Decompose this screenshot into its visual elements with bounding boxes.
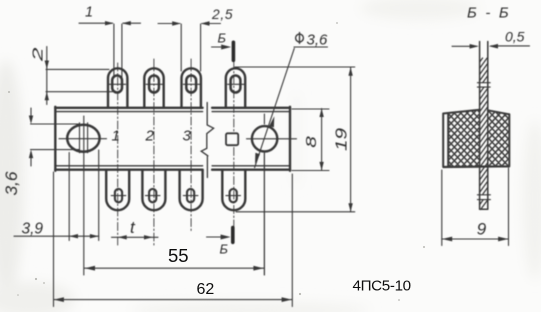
oval inner line right xyxy=(87,123,89,153)
dimensions group xyxy=(3,5,355,307)
dim 62 left arrowhead xyxy=(54,297,64,302)
dim 1 (top) dimension line xyxy=(79,22,141,24)
bottom tab 3 xyxy=(180,170,203,210)
dim t dimension line xyxy=(112,236,159,238)
insulator block bottom thick edge xyxy=(443,166,509,169)
dim 62 right arrowhead xyxy=(282,297,292,302)
dim 3,9 dimension line xyxy=(14,235,99,237)
dia 3,6 leader line xyxy=(255,48,295,167)
section mark Б bottom arrow xyxy=(207,236,222,238)
svg-text:55: 55 xyxy=(168,245,189,266)
dim t left arrowhead xyxy=(118,235,127,239)
top tab 4 hole tick xyxy=(228,83,244,85)
svg-text:1: 1 xyxy=(85,5,93,21)
circle horizontal centerline xyxy=(247,138,297,140)
dim 8 upper arrowhead xyxy=(319,109,323,118)
dim 3,6 (left) dimension line xyxy=(30,108,32,166)
top tab 3 hole tick xyxy=(183,83,199,85)
dim 2 extension lines xyxy=(46,69,113,91)
bottom tab 2 xyxy=(142,170,165,210)
svg-text:62: 62 xyxy=(197,281,215,298)
dim 3,9 extension lines xyxy=(69,150,99,241)
dim 3,6 lower arrowhead xyxy=(29,150,33,159)
strip hole ticks lower xyxy=(477,195,490,200)
dim 3,6 upper arrowhead xyxy=(29,116,33,125)
top tab 2 hole xyxy=(149,76,159,93)
dim 8 (right) dimension line xyxy=(321,109,323,171)
dim 19 extension lines xyxy=(235,67,355,212)
dim 8 lower arrowhead xyxy=(319,162,323,171)
contact strip outline xyxy=(480,42,488,210)
svg-text:8: 8 xyxy=(304,136,320,148)
dim 1 left arrowhead xyxy=(105,21,114,25)
dim 2,5 dimension line xyxy=(158,23,221,25)
dia 3,6 underline xyxy=(294,46,328,48)
svg-text:3,6: 3,6 xyxy=(3,171,21,196)
top tab 4 hole xyxy=(231,76,241,93)
dim 1 extension lines xyxy=(114,24,122,77)
bottom tab 4 hole xyxy=(230,189,237,202)
oval horizontal centerline xyxy=(59,138,107,140)
body right edge xyxy=(289,107,291,171)
svg-text:Б: Б xyxy=(220,242,229,257)
dim 19 upper arrowhead xyxy=(348,67,352,76)
top tab 4 xyxy=(226,68,245,107)
dim 0,5 dimension line xyxy=(452,45,530,47)
dim 0,5 left arrowhead xyxy=(470,44,479,49)
dim 0,5 right arrowhead xyxy=(489,44,498,49)
body left edge xyxy=(54,107,56,171)
top tab 1 hole tick xyxy=(109,83,125,85)
dim 55 right extension line xyxy=(263,153,265,275)
body outline bottom edge xyxy=(55,168,290,170)
square hole xyxy=(226,133,238,145)
top tab 3 xyxy=(182,68,201,107)
svg-text:2,5: 2,5 xyxy=(211,7,233,22)
body inner bottom line xyxy=(56,165,289,167)
dim 2 (left) dimension line xyxy=(46,47,48,105)
body inner top line xyxy=(56,111,289,113)
top tab 3 hole xyxy=(186,76,196,93)
bottom tab 4 hole tick xyxy=(226,195,241,197)
svg-text:2: 2 xyxy=(145,128,155,145)
strip hatching xyxy=(480,58,488,210)
dim 62 extension lines xyxy=(54,172,293,307)
bottom tab 1 xyxy=(106,170,129,210)
main view group xyxy=(55,59,296,275)
bottom tab 1 hole xyxy=(115,189,122,202)
dim 2,5 left arrowhead xyxy=(172,21,181,25)
section mark Б top thick bar xyxy=(232,42,236,60)
left oval hole xyxy=(67,125,99,152)
svg-text:2: 2 xyxy=(31,48,47,63)
dim 2 lower arrowhead xyxy=(45,92,49,101)
dim 9 extension lines xyxy=(442,168,509,246)
svg-text:1: 1 xyxy=(112,128,120,145)
dim 3,9 right arrowhead xyxy=(90,234,99,238)
bottom tab 3 hole xyxy=(187,189,194,202)
dim 55 right arrowhead xyxy=(253,266,263,271)
contact 2 centerline xyxy=(153,59,155,246)
body outline top edge xyxy=(55,107,290,109)
dim t right arrowhead xyxy=(144,235,153,239)
top tab 2 hole tick xyxy=(146,83,162,85)
dim 62 dimension line xyxy=(54,299,293,301)
dim 9 left arrowhead xyxy=(442,237,452,242)
top tab 2 xyxy=(144,68,163,107)
dim 55 left arrowhead xyxy=(85,266,95,271)
bottom tab 2 hole xyxy=(149,189,156,202)
contact 1 centerline xyxy=(117,63,119,246)
dim 19 lower arrowhead xyxy=(348,203,352,212)
top tab 1 xyxy=(108,68,127,107)
dim 2,5 extension lines xyxy=(181,24,200,71)
circle vertical centerline / 55 extension xyxy=(263,114,265,275)
dim 55 dimension line xyxy=(84,267,264,269)
top tab 1 hole xyxy=(112,76,122,93)
section view group xyxy=(442,5,530,246)
svg-text:9: 9 xyxy=(477,220,487,239)
svg-text:4ПС5-10: 4ПС5-10 xyxy=(353,278,411,295)
strip hole ticks upper xyxy=(477,83,490,87)
contact 3 centerline xyxy=(190,59,192,231)
bottom tab 4 xyxy=(222,170,245,210)
dim 2 upper arrowhead xyxy=(45,61,49,70)
block cross hatch xyxy=(449,110,509,167)
svg-text:Б: Б xyxy=(218,31,227,46)
paper specks xyxy=(8,22,425,301)
dia 3,6 callout symbol xyxy=(296,33,304,44)
dim 3,6 extension lines xyxy=(31,124,80,150)
oval inner line left xyxy=(79,123,81,153)
svg-text:19: 19 xyxy=(333,128,350,151)
svg-text:3: 3 xyxy=(183,128,192,145)
dim 2,5 right arrowhead xyxy=(201,21,210,25)
svg-text:0,5: 0,5 xyxy=(505,29,525,45)
dim 19 (right) dimension line xyxy=(350,67,352,212)
contact 4 centerline xyxy=(233,61,235,132)
svg-text:3,9: 3,9 xyxy=(22,221,44,238)
bottom tab 1 hole tick xyxy=(111,195,126,197)
break line xyxy=(201,103,213,178)
bottom tab 3 hole tick xyxy=(183,195,198,197)
svg-text:3,6: 3,6 xyxy=(307,31,329,48)
section mark Б top arrow xyxy=(212,46,223,48)
dim 8 extension lines xyxy=(292,109,329,171)
dim 1 right arrowhead xyxy=(122,21,131,25)
dim 9 right arrowhead xyxy=(498,237,508,242)
insulator block outline xyxy=(443,110,509,167)
dim 9 dimension line xyxy=(442,238,509,240)
dia 3,6 leader arrowhead lower xyxy=(255,153,260,164)
bottom tab 2 hole tick xyxy=(145,195,160,197)
dim 3,9 left arrowhead xyxy=(69,234,78,238)
oval center vertical line / 55 extension xyxy=(83,116,85,275)
svg-text:Б - Б: Б - Б xyxy=(467,5,511,22)
section mark Б bottom thick bar xyxy=(231,228,235,243)
dia 3,6 leader arrowhead upper xyxy=(269,116,274,127)
right circle hole xyxy=(252,126,277,151)
